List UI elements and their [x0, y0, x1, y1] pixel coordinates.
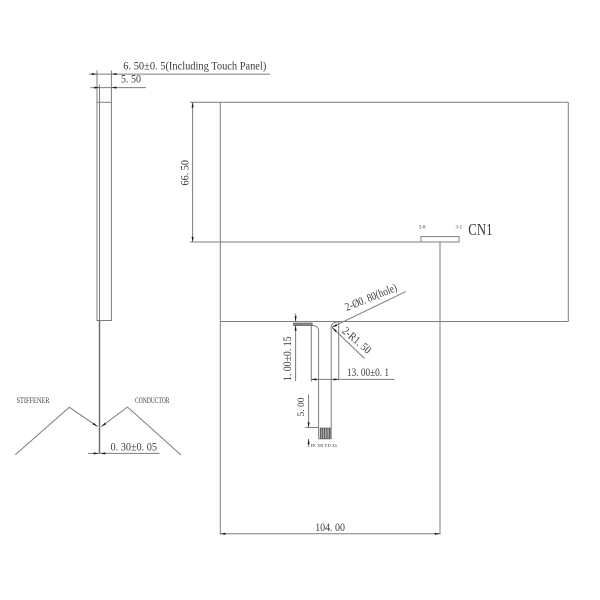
side view inner layer line — [99, 102, 101, 320]
stiffener top tick — [306, 427, 320, 429]
svg-text:66. 50: 66. 50 — [179, 160, 191, 186]
5.50 left arrow (points right) — [94, 87, 99, 89]
arrowheads — [92, 73, 440, 535]
svg-text:3-1: 3-1 — [456, 226, 463, 231]
ext line 13.00 right — [338, 322, 340, 380]
0.30 right arrow (points left) — [100, 452, 105, 454]
dim 5.00 upper segment — [308, 394, 310, 427]
FPC tab right outline — [331, 322, 339, 439]
svg-text:5. 50: 5. 50 — [121, 74, 141, 86]
svg-text:5. 00: 5. 00 — [297, 397, 307, 416]
svg-text:CONDUCTOR: CONDUCTOR — [135, 395, 170, 405]
leader line hole — [332, 292, 406, 328]
ext line 13.00 left — [310, 326, 312, 382]
dim line 104.00 — [220, 533, 440, 535]
svg-text:13. 00±0. 1: 13. 00±0. 1 — [347, 367, 389, 379]
dim 5.00 lower segment — [308, 439, 310, 447]
5.00 lower arrow (points up) — [308, 439, 310, 444]
CN1 center line down — [439, 242, 441, 535]
FPC tab left outline — [312, 325, 319, 439]
hatch bar (adhesive) on FPC top — [293, 323, 312, 326]
svg-text:FE XB YD XL: FE XB YD XL — [311, 443, 339, 448]
6.50 right arrow (points left) — [111, 73, 116, 75]
conductor V arrow — [101, 423, 106, 427]
svg-text:104. 00: 104. 00 — [315, 522, 345, 534]
svg-text:STIFFENER: STIFFENER — [17, 395, 50, 405]
stiffener V arrow — [93, 423, 98, 427]
stiffener leader V left — [15, 407, 97, 454]
svg-text:1. 00±0. 15: 1. 00±0. 15 — [282, 336, 294, 381]
big rect bottom edge — [220, 321, 568, 323]
dim line 66.50 vertical — [192, 102, 194, 242]
66.50 top arrow (points up) — [192, 102, 194, 107]
big rect right edge — [567, 102, 569, 321]
5.00 upper arrow (points down) — [308, 422, 310, 427]
big rect left edge extended down — [219, 102, 221, 535]
leader line radius — [332, 328, 364, 359]
dim line 6.50 — [89, 73, 270, 75]
dim line 0.30 right segment — [100, 452, 160, 454]
1.00 upper arrow (points down) — [295, 316, 297, 321]
104 right arrow (points right) — [435, 533, 440, 535]
6.50 left arrow (points right) — [92, 73, 97, 75]
hole leader arrow — [332, 324, 337, 327]
ext line 6.50 left — [96, 71, 98, 103]
13.00 left arrow (points left) — [311, 378, 316, 380]
svg-text:0. 30±0. 05: 0. 30±0. 05 — [111, 442, 158, 454]
13.00 right arrow (points right) — [334, 378, 339, 380]
ext line 6.50 right — [110, 71, 112, 103]
side view FPC tail line — [99, 321, 101, 454]
dim line 0.30 left segment — [88, 452, 99, 454]
66.50 bottom arrow (points down) — [192, 237, 194, 242]
CN1 connector rect — [421, 237, 459, 242]
side view outer rect — [97, 102, 111, 320]
radius leader arrow — [332, 328, 336, 332]
dim 1.00 upper segment — [295, 314, 297, 322]
1.00 lower arrow (points up) — [295, 325, 297, 330]
horizontal line at CN1 level — [190, 241, 421, 243]
svg-text:CN1: CN1 — [468, 220, 492, 239]
dim 1.00 lower segment — [295, 325, 297, 381]
svg-text:3-8: 3-8 — [419, 226, 426, 231]
dim line 13.00 — [311, 378, 394, 380]
0.30 left arrow (points right) — [94, 452, 99, 454]
104 left arrow (points left) — [220, 533, 225, 535]
top edge line with left extension (rect top) — [190, 101, 568, 103]
dim line 5.50 — [91, 87, 147, 89]
svg-text:6. 50±0. 5(Including Touch Pan: 6. 50±0. 5(Including Touch Panel) — [123, 61, 266, 73]
conductor leader V right — [101, 407, 181, 455]
5.50 right arrow (points left) — [111, 87, 116, 89]
stiffener bottom edge — [319, 438, 332, 440]
stiffener hatched block — [320, 428, 330, 439]
ext line 5.50 left — [99, 85, 101, 103]
